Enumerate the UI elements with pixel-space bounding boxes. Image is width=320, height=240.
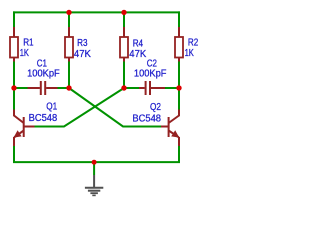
wire R4 column top bbox=[123, 11, 125, 27]
wire R3 to node B bbox=[68, 62, 70, 89]
wire node A down to Q1 collector bbox=[13, 88, 15, 110]
svg-text:R3: R3 bbox=[77, 38, 88, 49]
svg-text:47K: 47K bbox=[74, 49, 91, 60]
svg-text:Q1: Q1 bbox=[46, 102, 57, 113]
wire Q1 emitter to bottom rail bbox=[13, 146, 15, 163]
wire bottom rail bbox=[13, 161, 180, 163]
wire Q2 emitter to bottom rail bbox=[178, 146, 180, 163]
wire cross-couple node C to Q1 base bbox=[35, 88, 125, 127]
transistor Q2 bbox=[161, 110, 179, 147]
svg-text:1K: 1K bbox=[185, 48, 194, 59]
svg-text:47K: 47K bbox=[129, 49, 146, 60]
wire node D down to Q2 collector bbox=[178, 88, 180, 110]
node A junction (C1 left / Q1 collector) bbox=[11, 85, 16, 90]
resistor R2 bbox=[175, 27, 183, 62]
svg-text:R4: R4 bbox=[133, 38, 144, 49]
wire R1 to node A bbox=[13, 62, 15, 89]
svg-text:100KpF: 100KpF bbox=[27, 68, 60, 79]
node B junction (C1 right / R3) bbox=[66, 85, 71, 90]
wire R3 column top bbox=[68, 11, 70, 27]
svg-text:BC548: BC548 bbox=[29, 113, 58, 124]
wire right column top bbox=[178, 11, 180, 27]
wire cross-couple node B to Q2 base bbox=[69, 88, 161, 127]
resistor R4 bbox=[120, 27, 128, 62]
ground bbox=[85, 162, 103, 195]
svg-text:R1: R1 bbox=[23, 38, 34, 49]
svg-text:100KpF: 100KpF bbox=[134, 69, 167, 80]
node junction top R3 bbox=[66, 10, 71, 15]
wire top rail V+ bbox=[13, 11, 180, 13]
node D junction (C2 right / Q2 collector) bbox=[176, 85, 181, 90]
node ground junction bbox=[92, 160, 97, 165]
svg-text:BC548: BC548 bbox=[132, 114, 161, 125]
transistor Q1 bbox=[14, 110, 35, 147]
resistor R3 bbox=[65, 27, 73, 62]
capacitor C1 bbox=[14, 81, 69, 95]
wire R2 to node D bbox=[178, 62, 180, 89]
wire left column top bbox=[13, 11, 15, 27]
svg-text:1K: 1K bbox=[20, 48, 29, 59]
node C junction (C2 left / R4) bbox=[121, 85, 126, 90]
capacitor C2 bbox=[124, 81, 179, 95]
svg-text:R2: R2 bbox=[188, 37, 199, 48]
node junction top R4 bbox=[121, 10, 126, 15]
resistor R1 bbox=[10, 27, 18, 62]
wire R4 to node C bbox=[123, 62, 125, 89]
svg-text:Q2: Q2 bbox=[150, 102, 161, 113]
